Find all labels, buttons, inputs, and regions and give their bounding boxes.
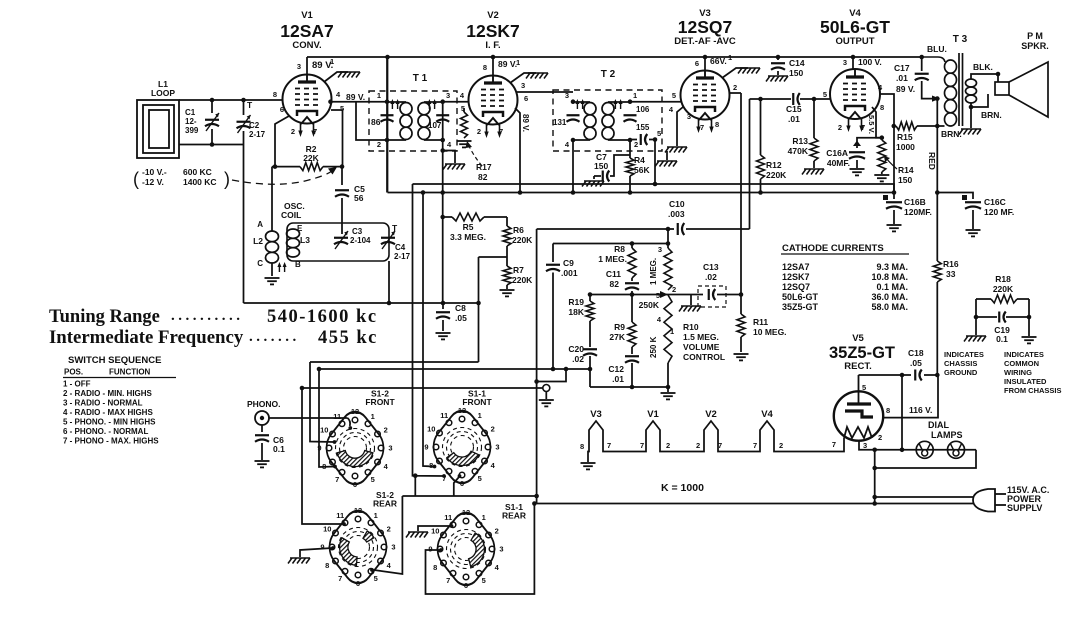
label R14 <box>898 165 914 185</box>
label 89V V2 <box>498 59 517 69</box>
node T1 col rail <box>440 190 445 195</box>
wire volume-switch column <box>536 229 538 504</box>
svg-text:.......: ....... <box>249 329 300 345</box>
svg-text:5: 5 <box>482 576 486 585</box>
resistor R9 27K <box>628 295 636 355</box>
node tone branch top <box>564 367 569 372</box>
svg-text:0.1: 0.1 <box>996 334 1008 344</box>
node C14 top <box>776 55 781 60</box>
svg-text:220K: 220K <box>766 170 787 180</box>
svg-text:5: 5 <box>657 129 661 138</box>
svg-text:R4: R4 <box>634 155 645 165</box>
label T2 terminal 2 <box>634 140 638 149</box>
svg-text:89 V.: 89 V. <box>896 84 915 94</box>
wire plug lower <box>876 503 975 505</box>
winding T3 secondary <box>966 74 999 107</box>
wire T1 left column <box>386 57 388 193</box>
label pin2 V5 <box>878 433 882 442</box>
svg-text:DIAL: DIAL <box>928 420 949 430</box>
svg-text:100 V.: 100 V. <box>858 57 882 67</box>
svg-text:C18: C18 <box>908 348 924 358</box>
svg-text:BLK.: BLK. <box>973 62 993 72</box>
svg-text:12SA7: 12SA7 <box>782 262 810 272</box>
svg-text:T 1: T 1 <box>413 73 428 84</box>
svg-text:6: 6 <box>460 479 464 488</box>
label 107 <box>428 121 442 130</box>
svg-text:540-1600 kc: 540-1600 kc <box>267 307 378 327</box>
svg-text:T 2: T 2 <box>601 69 616 80</box>
label pin5 V4 <box>823 90 827 99</box>
svg-text:LAMPS: LAMPS <box>931 430 963 440</box>
svg-text:470K: 470K <box>788 146 809 156</box>
svg-text:8: 8 <box>580 442 584 451</box>
wire cathode to C16A <box>857 138 882 148</box>
node AVC on bus <box>653 182 658 187</box>
node V4 bus <box>851 55 856 60</box>
svg-text:CATHODE CURRENTS: CATHODE CURRENTS <box>782 243 884 254</box>
svg-text:27K: 27K <box>609 332 625 342</box>
svg-text:.02: .02 <box>572 354 584 364</box>
wire C10 riser <box>749 99 751 229</box>
svg-text:.05: .05 <box>910 358 922 368</box>
svg-text:SWITCH SEQUENCE: SWITCH SEQUENCE <box>68 355 161 366</box>
svg-text:2: 2 <box>779 441 783 450</box>
svg-text:R5: R5 <box>463 222 474 232</box>
capacitor C20 .02 <box>583 349 597 387</box>
node x415 y475 <box>413 473 418 478</box>
label T1 terminal 4 <box>447 140 452 149</box>
svg-text:1: 1 <box>482 513 486 522</box>
lamp dial 2 <box>948 441 965 458</box>
wire T2 terminal4 drop <box>572 140 574 193</box>
wire R18 left gnd <box>975 317 977 335</box>
capacitor C1 (12-399 variable) <box>205 100 219 145</box>
ground chassis S1-1R c11 <box>406 524 453 537</box>
capacitor C7 150 <box>594 155 630 182</box>
capacitor C10 .003 <box>674 223 686 235</box>
svg-text:12: 12 <box>458 406 466 415</box>
ground chassis C14 <box>766 76 788 82</box>
svg-text:82: 82 <box>478 172 488 182</box>
capacitor C9 .001 <box>546 265 560 369</box>
inductor L3 <box>287 229 300 257</box>
node osc drop <box>387 301 392 306</box>
label T C4 <box>392 223 398 233</box>
label C19 <box>994 325 1010 344</box>
wire R11 column <box>740 93 742 314</box>
label DIAL LAMPS <box>928 420 963 440</box>
label pin5 V5 <box>862 383 866 392</box>
label C7 <box>594 152 608 171</box>
svg-text:1: 1 <box>516 58 520 67</box>
svg-text:FRONT: FRONT <box>365 397 395 407</box>
svg-text:8: 8 <box>433 563 437 572</box>
ground chassis C7 <box>582 181 604 187</box>
node lamp return <box>872 466 877 471</box>
winding T2 primary <box>573 102 596 140</box>
node T2 terminal3 <box>571 99 576 104</box>
svg-text:REAR: REAR <box>502 511 526 521</box>
capacitor C12 .01 <box>625 356 639 387</box>
svg-text:V3: V3 <box>590 409 602 420</box>
svg-text:-10 V.-: -10 V.- <box>142 167 167 177</box>
label OUTPUT <box>835 36 874 47</box>
svg-text:9: 9 <box>428 545 432 554</box>
label pin7 V5 <box>832 440 836 449</box>
label B <box>295 260 301 269</box>
svg-text:12: 12 <box>354 506 362 515</box>
svg-text:SPKR.: SPKR. <box>1021 41 1049 51</box>
svg-text:56: 56 <box>354 193 364 203</box>
label pin7 V3 <box>700 123 704 132</box>
svg-text:86: 86 <box>371 117 381 127</box>
svg-text:V5: V5 <box>852 333 864 344</box>
label terminal 5 <box>657 129 661 138</box>
wire R4 branch <box>629 140 631 158</box>
inductor L2 <box>266 167 279 276</box>
node V1 pin4 <box>328 99 333 104</box>
svg-text:9: 9 <box>317 444 321 453</box>
svg-text:0.1: 0.1 <box>273 444 285 454</box>
wire y243 net <box>553 243 668 245</box>
label 1 pot <box>670 327 674 336</box>
wire RED drop <box>936 99 938 193</box>
capacitor C16A 40MF <box>849 141 865 169</box>
svg-text:1: 1 <box>670 327 674 336</box>
label C12 <box>608 364 624 384</box>
node pin2 stub <box>872 448 877 453</box>
node T2 terminal4 <box>571 138 576 143</box>
svg-text:REAR: REAR <box>373 499 397 509</box>
ground chassis speaker <box>959 129 981 135</box>
svg-text:1 MEG.: 1 MEG. <box>598 254 627 264</box>
polarity mark C16C <box>962 195 967 200</box>
insulated tie point <box>543 385 550 400</box>
label pin7 V2 <box>499 127 503 136</box>
label 115V AC <box>1007 485 1049 513</box>
node R8 tap <box>630 241 635 246</box>
svg-text:C12: C12 <box>608 364 624 374</box>
label pin4 V1 <box>336 90 341 99</box>
node V2 screen on rail <box>518 190 523 195</box>
svg-text:CONV.: CONV. <box>292 40 321 51</box>
svg-text:12SA7: 12SA7 <box>280 21 334 41</box>
label pin3 V1 <box>297 62 301 71</box>
svg-text:2 - RADIO - MIN. HIGHS: 2 - RADIO - MIN. HIGHS <box>63 389 153 398</box>
tube V3 12SQ7 <box>681 70 730 133</box>
svg-text:40MF.: 40MF. <box>827 158 850 168</box>
label 4 pot <box>657 315 662 324</box>
capacitor C15 .01 <box>793 93 800 105</box>
svg-text:22K: 22K <box>303 153 319 163</box>
svg-text:2: 2 <box>495 526 499 535</box>
resistor R6 220K <box>503 217 511 257</box>
label 250K vertical <box>649 336 658 358</box>
label R17 <box>476 162 492 182</box>
svg-text:6: 6 <box>695 59 699 68</box>
wire lamp return <box>875 450 976 504</box>
svg-text:FRONT: FRONT <box>462 397 492 407</box>
label T1 terminal 2 <box>377 140 381 149</box>
wire dashed AGC pointer <box>232 167 337 184</box>
svg-text:C14: C14 <box>789 58 805 68</box>
svg-text:8: 8 <box>886 406 890 415</box>
svg-text:P M: P M <box>1027 31 1043 41</box>
svg-text:CONTROL: CONTROL <box>683 352 725 362</box>
svg-text:(: ( <box>133 169 139 189</box>
label R13 <box>788 136 809 156</box>
label 116V <box>909 405 932 415</box>
node T3 bottom <box>935 124 940 129</box>
svg-text:8: 8 <box>483 63 487 72</box>
wire V5 cathode out <box>859 441 976 450</box>
svg-text:FUNCTION: FUNCTION <box>109 368 151 377</box>
ground chassis under T2 <box>655 151 677 167</box>
node C8 top <box>441 301 446 306</box>
label pin6 V3 <box>695 59 699 68</box>
wire V2 pin1 to ground <box>510 73 536 83</box>
label C2 <box>249 121 266 139</box>
wire secondary gnd <box>970 107 972 128</box>
svg-text:INDICATES: INDICATES <box>944 350 984 359</box>
label BLU. <box>927 44 947 54</box>
svg-text:12: 12 <box>462 508 470 517</box>
wire insulated tie y388 <box>302 387 543 389</box>
svg-text:K = 1000: K = 1000 <box>661 482 704 494</box>
capacitor C2 (2-17 trimmer) <box>237 100 251 303</box>
wire power bus y=503.5 <box>537 503 876 505</box>
capacitor 86 (T1) <box>381 115 394 122</box>
label 66V V3 <box>710 56 727 66</box>
svg-text:250K: 250K <box>639 300 660 310</box>
label pin4 V3 <box>669 105 674 114</box>
svg-text:C2: C2 <box>249 121 260 130</box>
wire T1 terminal4 gnd stub <box>443 151 455 164</box>
svg-text:12SQ7: 12SQ7 <box>782 282 810 292</box>
svg-text:3: 3 <box>658 245 662 254</box>
ground chassis S1-2R c9 <box>288 546 335 563</box>
svg-text:7: 7 <box>861 123 865 132</box>
label R7 <box>512 265 533 285</box>
label T2 terminal 4 <box>565 140 570 149</box>
wire y229 net <box>537 228 750 230</box>
label pin1 V3 <box>728 53 732 62</box>
svg-text:R18: R18 <box>995 274 1011 284</box>
svg-text:C16C: C16C <box>984 197 1006 207</box>
svg-text:1400 KC: 1400 KC <box>183 177 217 187</box>
label Tuning Range <box>49 307 378 327</box>
label pin8 V2 <box>483 63 487 72</box>
label heater V2 <box>705 409 717 420</box>
label T1 terminal 3 <box>446 91 450 100</box>
svg-text:L2: L2 <box>253 236 263 246</box>
svg-text:C16A: C16A <box>826 148 848 158</box>
svg-text:120MF.: 120MF. <box>904 207 932 217</box>
label 1MEG vertical <box>649 258 658 285</box>
label R16 <box>943 259 959 279</box>
svg-text:CHASSIS: CHASSIS <box>944 359 977 368</box>
label heater V4 <box>761 409 773 420</box>
label BRN. spkr <box>981 110 1002 120</box>
svg-text:9.3 MA.: 9.3 MA. <box>876 262 908 272</box>
label pin3 V4 <box>843 58 847 67</box>
label V5 <box>852 333 864 344</box>
node RED rail <box>935 190 940 195</box>
node x423 rail <box>421 190 426 195</box>
label C9 <box>561 258 578 278</box>
capacitor C11 82 <box>625 283 639 294</box>
wire AVC drop <box>654 140 656 185</box>
node top bus junction <box>385 55 390 60</box>
wire tone branch <box>537 369 566 382</box>
label 50L6-GT <box>820 17 890 37</box>
label pin5 V2 <box>461 104 465 113</box>
coupling arrows T1 left <box>390 99 399 109</box>
svg-text:INDICATES: INDICATES <box>1004 350 1044 359</box>
node T3 tap <box>935 96 940 101</box>
wire V1 pin3 plate to bus <box>306 57 308 75</box>
svg-text:106: 106 <box>636 105 650 114</box>
svg-text:12SK7: 12SK7 <box>466 21 520 41</box>
coupling arrows T2 right <box>613 99 622 109</box>
svg-text:C3: C3 <box>352 227 363 236</box>
svg-text:7: 7 <box>338 574 342 583</box>
svg-text:58.0 MA.: 58.0 MA. <box>871 302 908 312</box>
wire C18 run <box>859 374 939 376</box>
node lamp feed <box>900 448 905 453</box>
node plug branch <box>872 495 877 500</box>
node pot gnd <box>666 385 671 390</box>
wire S1-2R contact11 feed <box>302 388 346 526</box>
svg-text:R8: R8 <box>614 244 625 254</box>
svg-text:.05: .05 <box>455 313 467 323</box>
wire V4 pin3 to bus <box>852 57 854 70</box>
svg-text:150: 150 <box>898 175 912 185</box>
svg-text:5.5 V.: 5.5 V. <box>867 115 876 134</box>
label indicates common wiring <box>1004 350 1062 395</box>
label DET-AF-AVC <box>674 36 736 47</box>
svg-text:250 K: 250 K <box>649 336 658 358</box>
potentiometer R10 upper 1MEG <box>664 248 672 290</box>
resistor R2 22K <box>300 163 323 171</box>
node y496 column <box>534 494 539 499</box>
svg-text:455 kc: 455 kc <box>318 328 378 348</box>
label BRN. T3 <box>941 129 962 139</box>
node C18 junction <box>900 373 905 378</box>
wire loop top to V1 pin8 <box>179 99 283 101</box>
speaker PM <box>995 62 1048 117</box>
label C4 <box>394 243 411 261</box>
svg-text:89 V.: 89 V. <box>521 114 530 132</box>
label indicates chassis ground <box>944 350 984 377</box>
svg-text:VOLUME: VOLUME <box>683 342 720 352</box>
label V1 <box>301 10 313 21</box>
ground common C16A <box>850 169 865 175</box>
svg-text:3: 3 <box>499 545 503 554</box>
svg-text:C: C <box>257 259 263 268</box>
capacitor C3 2-104 variable <box>334 231 348 249</box>
svg-text:BLU.: BLU. <box>927 44 947 54</box>
svg-text:C10: C10 <box>669 199 685 209</box>
label C14 <box>789 58 805 78</box>
wire V3 pin4 stub <box>677 107 683 146</box>
node R12 top <box>758 97 763 102</box>
svg-text:E: E <box>297 224 303 233</box>
svg-text:.01: .01 <box>896 73 908 83</box>
label R6 <box>512 225 533 245</box>
ground common C16B <box>887 225 902 231</box>
node R2 right <box>340 164 345 169</box>
wire V1 pin1 to ground <box>324 72 348 82</box>
svg-text:V1: V1 <box>301 10 313 21</box>
label R5 <box>450 222 486 242</box>
node R2 left <box>273 164 278 169</box>
resistor R14 150 <box>878 140 886 174</box>
svg-text:8: 8 <box>880 103 884 112</box>
capacitor C13 .02 in dashed box <box>666 286 741 307</box>
wire V3 pin1 to ground <box>722 68 748 78</box>
label 89V at V1 pin4 <box>346 92 365 102</box>
node spkr <box>996 72 1001 77</box>
capacitor C19 0.1 <box>976 312 1029 323</box>
svg-text:6: 6 <box>353 480 357 489</box>
svg-text:2: 2 <box>377 140 381 149</box>
svg-text:56K: 56K <box>634 165 650 175</box>
svg-text:7: 7 <box>499 127 503 136</box>
node R19 top <box>588 292 593 297</box>
node R4 on rail <box>628 190 633 195</box>
svg-text:11: 11 <box>336 511 344 520</box>
svg-text:C17: C17 <box>894 63 910 73</box>
svg-text:2: 2 <box>666 441 670 450</box>
label heater V1 <box>647 409 659 420</box>
svg-text:2-17: 2-17 <box>249 130 266 139</box>
wire y369 tone line <box>319 368 590 370</box>
label pin2 V3 <box>733 83 737 92</box>
label R9 <box>609 322 625 342</box>
node vol riser <box>666 227 671 232</box>
wire C9 column upper <box>552 244 554 263</box>
capacitor C16B 120MF <box>886 193 902 225</box>
svg-text:1 - OFF: 1 - OFF <box>63 380 91 389</box>
label T2 terminal 3 <box>565 91 569 100</box>
svg-text:..........: .......... <box>171 308 244 324</box>
label 12SK7 <box>466 21 520 41</box>
label C20 <box>568 344 584 364</box>
wire y496 run <box>402 495 537 497</box>
svg-text:399: 399 <box>185 126 199 135</box>
winding T1 primary <box>387 102 412 140</box>
svg-text:6: 6 <box>524 94 528 103</box>
pointer R17 <box>466 141 483 166</box>
pointer R14 <box>884 156 897 169</box>
svg-text:10: 10 <box>431 526 439 535</box>
label pin2 V4 <box>838 123 842 132</box>
label R10 volume control <box>683 322 725 362</box>
label 35Z5-GT <box>829 344 895 362</box>
capacitor C8 .05 <box>436 303 450 331</box>
label I.F. <box>485 40 500 51</box>
wire S1-2R contact5 drop <box>370 496 402 574</box>
resistor R8 1MEG <box>628 244 636 282</box>
svg-text:LOOP: LOOP <box>151 88 175 98</box>
svg-text:10: 10 <box>323 524 331 533</box>
wire S1-1R bottom loop <box>426 504 535 595</box>
label R11 <box>753 317 787 337</box>
svg-text:7: 7 <box>335 475 339 484</box>
wire V4 pin4 plate <box>879 94 894 193</box>
svg-text:116 V.: 116 V. <box>909 405 932 415</box>
